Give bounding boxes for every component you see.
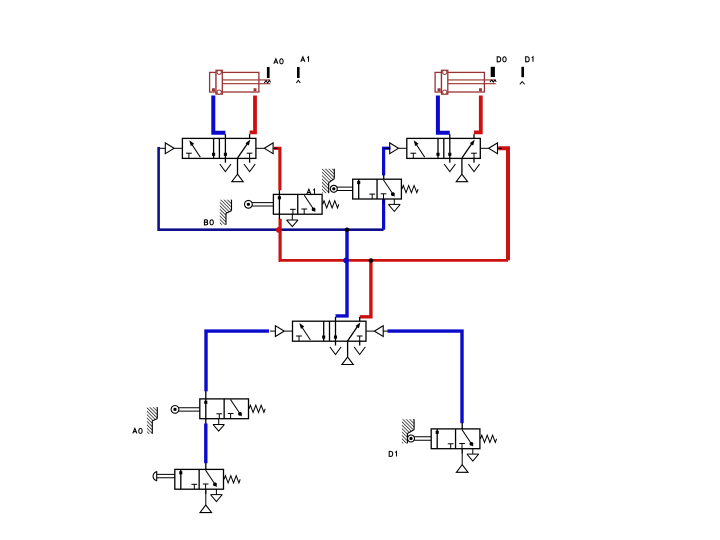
position marker D0	[491, 57, 506, 77]
double-acting cylinder A	[210, 70, 271, 94]
roller actuator of D0 valve	[330, 185, 352, 192]
port stubs of A0	[205, 391, 207, 399]
supply stub of S1	[205, 489, 207, 505]
label A0 of bottom-left roller valve	[133, 428, 142, 433]
plunger actuator of S1	[153, 472, 175, 481]
roller actuator of A0 valve	[171, 406, 200, 414]
wire: red rail to right riser (red)	[279, 259, 508, 262]
exhaust of D1	[472, 449, 474, 454]
wire: V1 right pilot down to valve A1 top port (red)	[274, 148, 280, 190]
supply stub of D1 valve	[461, 449, 463, 465]
compressed air supply of D1 valve	[456, 465, 468, 473]
position marker D1	[520, 57, 533, 85]
exhaust port 3 of V3	[354, 347, 365, 355]
wire: V3 left pilot to valve A0 top port (blue)	[206, 331, 269, 391]
compressed air supply of V3	[342, 357, 353, 365]
5/2-way double pilot valve V3 body	[293, 317, 367, 357]
left pilot of V3	[270, 326, 293, 337]
exhaust port 5 of V3	[330, 347, 341, 355]
junction node: blue on red rail	[343, 258, 349, 264]
right pilot of V3	[366, 326, 388, 337]
right pilot of V2	[480, 143, 502, 154]
position marker A0	[267, 59, 283, 78]
exhaust port 3 of V2	[468, 164, 479, 172]
return spring of A1	[323, 201, 339, 208]
wire: cylinder D right port to valve V2 port 2 (red)	[474, 96, 481, 133]
wire: right red riser up to V2 right pilot (red)	[498, 148, 508, 260]
piston rod tip marker of cylinder A	[264, 81, 270, 83]
wire: V1 left pilot down and supply bus to riser (navy)	[159, 148, 384, 229]
left pilot of V2	[384, 143, 407, 154]
wire: bus riser up to valve D0 bottom port (blue)	[382, 199, 385, 230]
return spring of D0	[402, 186, 418, 193]
port stubs of D1	[461, 423, 463, 429]
label D1 of bottom-right roller valve	[389, 451, 396, 456]
exhaust of A0	[218, 419, 220, 425]
port stubs of S1	[205, 463, 207, 469]
wire: cylinder A left port to valve V1 port 4 (blue)	[213, 96, 225, 133]
wire: valve D0 top port up to V2 left pilot (blue)	[384, 148, 391, 175]
5/2-way double pilot valve V2 body	[407, 134, 481, 174]
return spring of D1	[481, 435, 497, 442]
position marker A1	[296, 57, 308, 83]
cam wall A0wall	[145, 405, 159, 436]
compressed air supply of S1	[200, 505, 212, 513]
exhaust port 5 of V2	[444, 164, 455, 172]
label A1 of mid-left valve	[307, 189, 315, 194]
piston rod tip marker of cylinder D	[490, 80, 496, 82]
junction node: black on red rail	[369, 258, 374, 263]
right pilot of V1	[256, 143, 278, 154]
wire: valve A1 bottom port down through bus junction to red rail (red)	[279, 219, 282, 261]
compressed air supply of V2	[456, 174, 467, 182]
3/2-way roller valve S1 body	[175, 469, 224, 489]
3/2-way roller valve D1 body	[431, 429, 480, 449]
junction node: red at bus	[276, 227, 282, 233]
roller actuator of A1 valve	[245, 200, 274, 208]
3/2-way roller valve A1 body	[273, 194, 322, 214]
exhaust port 5 of V1	[220, 164, 231, 172]
wire: valve V3 port 2 up to red rail (red)	[360, 260, 371, 316]
double-acting cylinder D	[435, 70, 496, 94]
compressed air supply of V1	[232, 174, 243, 182]
exhaust of A1	[291, 214, 293, 220]
roller actuator of D1 valve	[408, 435, 432, 442]
wire: valve A0 bottom port down to start valve top port (blue)	[204, 424, 207, 464]
exhaust port 3 of V1	[244, 164, 255, 172]
wire: cylinder A right port to valve V1 port 2 (red)	[250, 96, 255, 133]
3/2-way roller valve A0 body	[200, 399, 249, 419]
cam wall B0wall	[217, 197, 234, 227]
cam wall D0wall	[320, 166, 337, 196]
wire: bus junction down to valve V3 port 4 (blue)	[336, 230, 348, 316]
wire: cylinder D left port to valve V2 port 4 (blue)	[438, 96, 450, 133]
wire: V3 right pilot to valve D1 top port (blue)	[388, 331, 463, 423]
label B0	[204, 220, 213, 225]
left pilot of V1	[160, 143, 183, 154]
return spring of S1	[224, 476, 240, 483]
junction node: black at bus	[345, 228, 350, 233]
exhaust of D0	[393, 199, 395, 204]
exhaust of S1	[215, 489, 217, 494]
return spring of A0	[249, 405, 265, 412]
5/2-way double pilot valve V1 body	[182, 134, 256, 174]
3/2-way roller valve D0 body	[353, 179, 402, 199]
port stubs of D0	[383, 175, 385, 180]
cam wall D1wall	[400, 417, 416, 446]
port stubs of A1	[278, 190, 280, 194]
